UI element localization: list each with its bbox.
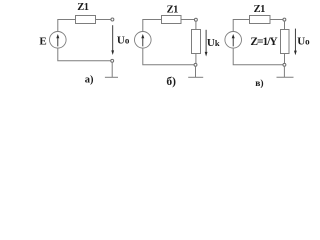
svg-text:E: E	[39, 35, 46, 47]
svg-text:Uo: Uo	[297, 35, 310, 47]
svg-text:в): в)	[255, 78, 263, 89]
impedance Z1 box (v)	[250, 16, 271, 24]
svg-text:Z=1/Y: Z=1/Y	[250, 36, 278, 48]
node bottom (a)	[111, 59, 114, 62]
impedance Z1 box (b)	[162, 16, 182, 24]
wire: node to load (v)	[284, 21, 286, 29]
wire: source top to Z1 (b)	[143, 20, 162, 32]
node top (v)	[283, 18, 286, 21]
wire: node to load (b)	[195, 21, 197, 29]
source internal arrow (v)	[232, 34, 235, 46]
wire: source bottom to bottom node (v)	[233, 48, 283, 64]
svg-text:Uo: Uo	[117, 34, 130, 46]
voltage arrow Uo (v)	[294, 29, 297, 56]
wire: load to bottom rail (v)	[284, 54, 286, 64]
voltage arrow Uk (b)	[205, 30, 208, 57]
wire: source bottom to bottom node (b)	[143, 48, 194, 64]
wire: source bottom to bottom node (a)	[58, 48, 111, 60]
wire: Z1 to output terminal (a)	[96, 19, 111, 21]
wire: Z1 to top node (v)	[270, 19, 283, 21]
source internal arrow (b)	[141, 34, 144, 46]
wire: source top to Z1 (v)	[233, 20, 249, 32]
wire: Z1 to top node (b)	[181, 19, 194, 21]
svg-text:Z1: Z1	[77, 2, 89, 13]
source circle (circuit b)	[135, 32, 152, 49]
node bottom (v)	[283, 63, 286, 66]
wire: source top to Z1 (a)	[58, 20, 76, 32]
svg-text:Z1: Z1	[167, 4, 179, 15]
ground (a)	[105, 62, 118, 77]
svg-text:Z1: Z1	[254, 4, 266, 15]
ground (b)	[188, 66, 203, 77]
svg-text:б): б)	[166, 76, 176, 88]
load impedance box Z=1/Y (v)	[281, 30, 290, 54]
svg-text:а): а)	[85, 75, 94, 86]
svg-text:Uk: Uk	[207, 37, 220, 49]
node bottom (b)	[194, 63, 197, 66]
load impedance box (b)	[192, 30, 201, 54]
source circle (circuit v)	[225, 32, 242, 49]
wire: load to bottom rail (b)	[195, 54, 197, 64]
source E circle (circuit a)	[50, 32, 67, 49]
terminal node top (a)	[111, 18, 114, 21]
node top (b)	[194, 18, 197, 21]
ground (v)	[277, 66, 294, 77]
voltage arrow Uo (a)	[111, 25, 114, 55]
impedance Z1 box (a)	[76, 16, 96, 24]
source E internal arrow	[56, 34, 59, 46]
